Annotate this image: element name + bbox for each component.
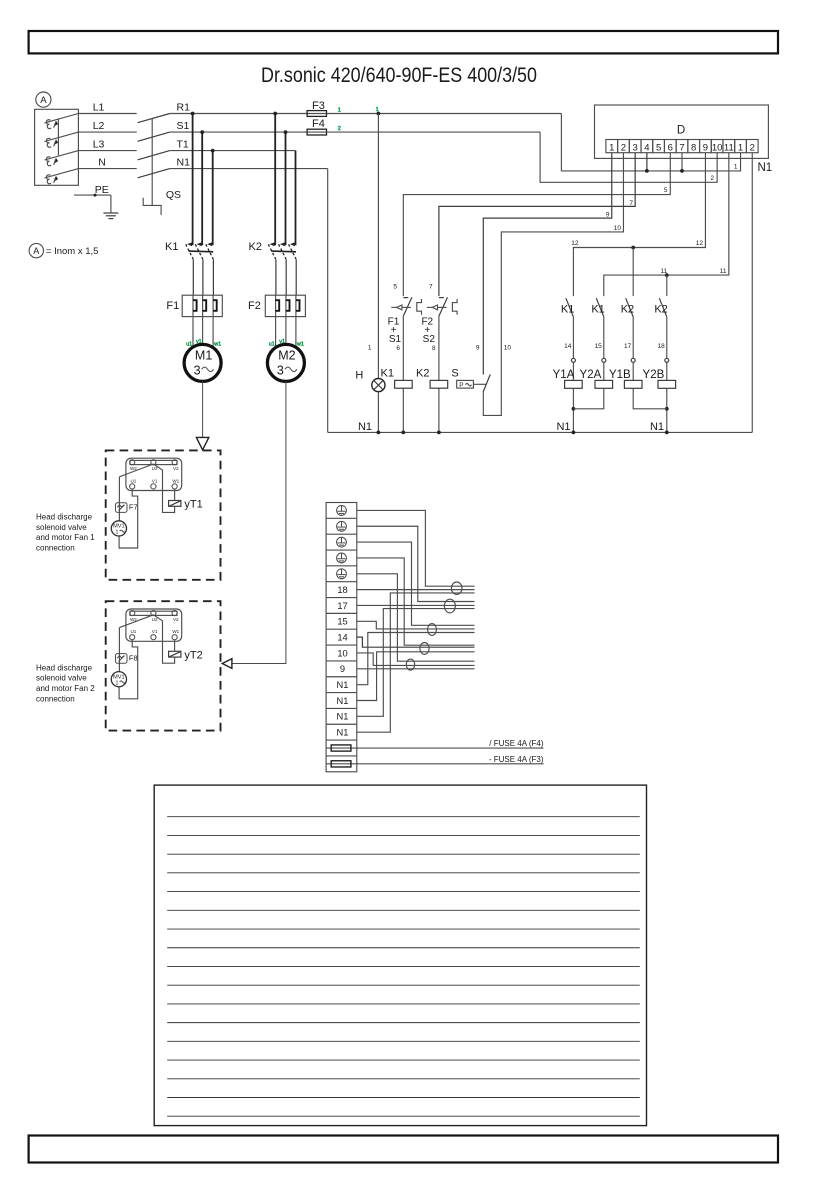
notes rule line 3 (167, 853, 640, 855)
controller D terminal cells (606, 140, 618, 153)
wire K1 coil to N1 rail (402, 388, 404, 432)
svg-text:and motor Fan 1: and motor Fan 1 (36, 533, 95, 542)
contactor K2 pole 1 contact tip (270, 242, 275, 246)
svg-text:15: 15 (337, 617, 347, 627)
svg-text:9: 9 (703, 142, 708, 153)
wire N1 left rail (327, 169, 329, 433)
terminal strip cell 11 (9) (326, 660, 357, 662)
svg-text:U1: U1 (130, 629, 136, 634)
motor M2 feed wires (275, 317, 277, 347)
svg-text:connection: connection (36, 694, 75, 703)
footer title block bar (29, 1136, 778, 1163)
contactor K2 pole 2 blade (dashed) (279, 244, 287, 259)
svg-text:V2: V2 (173, 617, 179, 622)
svg-text:D: D (677, 125, 685, 137)
solenoid yT1 (174, 489, 176, 501)
svg-text:6: 6 (668, 142, 673, 153)
wire 10 (357, 653, 475, 665)
terminal strip cell 9 (14) (326, 628, 357, 630)
terminal strip cell 16 (f) (326, 739, 357, 741)
ammeter symbol A (top) (36, 92, 51, 107)
thermal protector F8 (116, 654, 128, 664)
svg-text:F2: F2 (248, 300, 261, 312)
svg-text:N1: N1 (358, 421, 372, 433)
svg-text:Y2B: Y2B (643, 369, 665, 381)
svg-text:Y1B: Y1B (609, 369, 631, 381)
svg-text:Y1A: Y1A (553, 369, 575, 381)
wire Y2A to Y1A junction (573, 388, 603, 409)
mechanical link of CTs (57, 120, 59, 156)
svg-text:14: 14 (564, 343, 572, 350)
disconnect switch QS (138, 114, 170, 123)
overload F1 element pole 2 (202, 295, 204, 316)
lamp H (372, 379, 385, 392)
terminal strip cell 14 (N1) (326, 707, 357, 709)
svg-text:2: 2 (750, 142, 755, 153)
svg-text:2: 2 (710, 175, 714, 182)
wire 8 to coil K2 (438, 316, 440, 381)
wire earth 3 (357, 542, 475, 625)
wire lamp to N1 rail (377, 392, 379, 433)
svg-text:10: 10 (504, 345, 512, 352)
contactor K2 pole 3 contact tip (290, 242, 295, 246)
cable marker B (444, 599, 455, 613)
svg-text:Head discharge: Head discharge (36, 513, 93, 522)
wire 6 to coil K1 (402, 316, 404, 381)
fuse F3 (307, 111, 326, 117)
notes rule line 10 (167, 984, 640, 986)
terminal strip cell 17 (f) (326, 755, 357, 757)
CT/connection symbols inside metering box (44, 114, 78, 123)
wire 15 (603, 317, 605, 359)
wire 18 (666, 317, 668, 359)
wire L2 (78, 131, 136, 133)
terminal strip cell 10 (10) (326, 644, 357, 646)
wire N1 d (357, 593, 475, 732)
controller D box (595, 105, 769, 158)
board link bar (130, 611, 177, 615)
contactor K2 pole 2 wire (285, 132, 287, 245)
terminal strip cell 15 (N1) (326, 723, 357, 725)
notes rule line 11 (167, 1003, 640, 1005)
svg-text:= Inom x 1,5: = Inom x 1,5 (46, 246, 99, 257)
svg-text:- FUSE 4A (F3): - FUSE 4A (F3) (489, 755, 544, 764)
wire N1 c (357, 609, 475, 717)
svg-text:K1: K1 (381, 368, 394, 380)
wire 1 (24V supply to D terminals 4,7,12) (561, 114, 740, 171)
motor M1 feed wires (192, 317, 194, 347)
wire 2 after F4 (327, 131, 541, 133)
svg-text:S: S (451, 368, 458, 380)
svg-text:1: 1 (368, 345, 372, 352)
terminal strip cell 8 (15) (326, 612, 357, 614)
note: A = Inom x 1,5 (29, 243, 43, 257)
board link bar (130, 460, 177, 464)
contactor K2 pole 2 contact tip (280, 242, 285, 246)
wire 9 (D terminal 1 to switch S) (483, 153, 611, 375)
terminal strip block (326, 503, 357, 772)
wire earth 4 (357, 558, 475, 645)
contactor K2 pole 1 wire (274, 114, 276, 246)
solenoid yT2 (174, 640, 176, 652)
board terminal U2 (151, 460, 156, 465)
wire 12 (D terminal 9 to K1 contacts) (573, 153, 705, 296)
wire M1 to fan box 1 (202, 381, 204, 437)
contactor K1 pole 3 blade (dashed) (206, 244, 214, 259)
wire S1 bus (170, 131, 307, 133)
cable marker E (406, 659, 414, 670)
svg-text:L1: L1 (93, 102, 105, 114)
svg-text:9: 9 (606, 211, 610, 218)
notes rule line 17 (167, 1115, 640, 1117)
wire U2 to motor protector (119, 464, 153, 477)
notes rule line 13 (167, 1040, 640, 1042)
terminal point Y2B (665, 358, 669, 362)
contactor K2 pole 1 blade (dashed) (268, 244, 276, 259)
terminal board (fan 1) (126, 458, 182, 490)
svg-text:12: 12 (571, 240, 579, 247)
svg-text:K1: K1 (591, 304, 604, 316)
svg-text:V1: V1 (152, 478, 158, 483)
wire 5 (D terminal 6 to F1/S1 contact) (403, 153, 670, 296)
svg-text:9: 9 (340, 664, 345, 674)
svg-text:M1: M1 (195, 349, 212, 363)
wire earth 5 (357, 574, 475, 661)
svg-text:Head discharge: Head discharge (36, 663, 93, 672)
coil K1 (395, 380, 413, 388)
wire 17 (632, 317, 634, 359)
svg-text:F3: F3 (312, 100, 325, 112)
wire 7 (D terminal 3 to F2/S2 contact) (439, 153, 635, 296)
wire stub terminal 7 (681, 153, 683, 171)
motor M2 circle (267, 344, 304, 381)
QS handle (143, 198, 161, 215)
wire 10 (D terminal 2 to switch S) (483, 153, 623, 416)
wire 2 (to D terminal 10) (540, 132, 717, 182)
wire N (78, 168, 136, 170)
wire R1 bus (170, 113, 307, 115)
contactor K1 pole 2 contact tip (197, 242, 202, 246)
wire + FUSE 4A (F4) (357, 747, 544, 749)
overload relay F1 box (182, 295, 222, 316)
svg-text:5: 5 (393, 284, 397, 291)
svg-text:14: 14 (337, 633, 347, 643)
terminal board (fan 2 ) (126, 609, 182, 641)
arrow into fan box 1 (196, 437, 208, 450)
wire 17 (357, 604, 475, 606)
terminal point Y1A (571, 358, 575, 362)
svg-text:N1: N1 (177, 157, 191, 169)
svg-text:Dr.sonic 420/640-90F-ES 400/3/: Dr.sonic 420/640-90F-ES 400/3/50 (261, 63, 537, 87)
overload F1 element pole 3 (212, 295, 214, 316)
wire 1 to lamp H (377, 114, 379, 379)
contactor K1 pole 1 blade (dashed) (186, 244, 194, 259)
svg-text:N: N (98, 157, 106, 169)
header title block bar (29, 31, 778, 53)
terminal strip cell 5 (e) (326, 565, 357, 567)
svg-text:S2: S2 (423, 334, 436, 345)
svg-text:yT1: yT1 (184, 499, 202, 511)
svg-text:S1: S1 (177, 120, 190, 132)
wire 11 (D terminal 11 to K2 contacts) (604, 153, 729, 296)
svg-text:Y2A: Y2A (580, 369, 602, 381)
svg-text:N1: N1 (556, 421, 570, 433)
contactor K2 pole 3 blade (dashed) (289, 244, 297, 259)
svg-text:7: 7 (679, 142, 684, 153)
svg-text:11: 11 (724, 142, 734, 153)
notes table box (154, 785, 646, 1126)
wire 11 branch to Y2B contact (666, 275, 668, 296)
overload F1 element pole 1 (192, 295, 194, 316)
terminal point Y1B (631, 358, 635, 362)
wire T1 bus (170, 150, 296, 152)
svg-text:18: 18 (658, 343, 666, 350)
svg-text:V1: V1 (152, 629, 158, 634)
svg-text:A: A (33, 246, 39, 256)
svg-text:connection: connection (36, 544, 75, 553)
motor M1 circle (184, 344, 221, 381)
notes rule line 12 (167, 1022, 640, 1024)
svg-text:17: 17 (624, 343, 632, 350)
wire fan motor to U1 (119, 489, 138, 548)
notes rule line 1 (167, 816, 640, 818)
wire N1 a (357, 633, 475, 685)
notes rule line 6 (167, 909, 640, 911)
board terminal V2 (172, 460, 177, 465)
notes rule line 7 (167, 928, 640, 930)
svg-text:K1: K1 (561, 304, 574, 316)
svg-text:/ FUSE 4A (F4): / FUSE 4A (F4) (489, 739, 544, 748)
svg-text:K1: K1 (165, 241, 178, 253)
fan motor MV1 (111, 672, 126, 687)
contactor K1 pole 1 contact tip (187, 242, 192, 246)
svg-text:8: 8 (432, 345, 436, 352)
overload F2 element pole 3 (295, 295, 297, 316)
wire earth 2 (357, 526, 475, 601)
terminal strip cell 7 (17) (326, 597, 357, 599)
wire 14 (357, 637, 475, 647)
wire M2 to fan box 2 (232, 381, 286, 663)
svg-text:K2: K2 (621, 304, 634, 316)
contactor K1 mechanical link (189, 250, 214, 253)
svg-text:7: 7 (629, 200, 633, 207)
svg-text:and motor Fan 2: and motor Fan 2 (36, 684, 95, 693)
notes rule line 14 (167, 1059, 640, 1061)
svg-text:18: 18 (337, 585, 347, 595)
svg-text:10: 10 (614, 225, 622, 232)
svg-text:W1: W1 (172, 478, 179, 483)
contact K2 (for Y2B) (659, 298, 667, 317)
svg-text:U1: U1 (130, 478, 136, 483)
terminal strip cell 13 (N1) (326, 692, 357, 694)
svg-text:L2: L2 (93, 120, 105, 132)
svg-text:N1: N1 (650, 421, 664, 433)
ground (PE earth symbol) (103, 212, 118, 214)
svg-text:15: 15 (595, 343, 603, 350)
cable marker C (428, 624, 437, 636)
svg-text:N1: N1 (337, 696, 349, 706)
wire stub terminal 4 (646, 153, 648, 171)
wire U2 to motor protector (119, 615, 153, 628)
terminal strip cell 1 (e) (337, 506, 347, 516)
svg-text:A: A (40, 95, 47, 106)
terminal strip cell 3 (e) (326, 533, 357, 535)
contact F2+S2 (overload NC) (439, 297, 444, 299)
terminal strip cell 4 (e) (326, 549, 357, 551)
svg-text:1: 1 (738, 142, 743, 153)
board terminal W2 (130, 460, 135, 465)
svg-text:9: 9 (476, 345, 480, 352)
wire 15 (357, 621, 475, 629)
wire L1 (supply to QS) (78, 113, 136, 115)
svg-text:H: H (355, 369, 363, 381)
wire 9 (357, 668, 475, 670)
svg-text:1: 1 (376, 107, 379, 113)
fan motor MV1 (111, 521, 126, 536)
notes rule line 15 (167, 1078, 640, 1080)
svg-text:4: 4 (644, 142, 649, 153)
overload F2 element pole 2 (285, 295, 287, 316)
svg-text:1: 1 (338, 107, 341, 113)
contact F1+S1 (overload NC) (403, 297, 408, 299)
cable marker A (451, 582, 462, 594)
contactor K2 mechanical link (271, 250, 296, 253)
board terminal U2 (151, 611, 156, 616)
svg-text:F4: F4 (312, 118, 325, 130)
notes rule line 2 (167, 834, 640, 836)
terminal strip cell 12 (N1) (326, 676, 357, 678)
wire 12 branch to Y1B contact (632, 248, 634, 297)
notes rule line 5 (167, 891, 640, 893)
wire 1 after F3 (327, 113, 562, 115)
svg-text:K2: K2 (249, 241, 262, 253)
svg-text:N1: N1 (337, 728, 349, 738)
wire PE (74, 194, 111, 196)
dashed box fan 2 connection (106, 601, 221, 730)
svg-text:R1: R1 (177, 102, 191, 114)
svg-text:17: 17 (337, 601, 347, 611)
terminal strip cell 6 (18) (326, 581, 357, 583)
wire fan motor to U1 (119, 640, 138, 699)
svg-text:P: P (459, 382, 463, 389)
svg-text:1: 1 (734, 164, 738, 171)
wire 14 (572, 317, 574, 359)
svg-text:11: 11 (720, 268, 727, 275)
arrow into fan box 2 (222, 659, 232, 669)
svg-text:K2: K2 (416, 368, 429, 380)
svg-text:F8: F8 (129, 654, 138, 663)
notes rule line 4 (167, 872, 640, 874)
metering box (35, 109, 79, 185)
svg-text:N1: N1 (758, 162, 773, 174)
svg-text:11: 11 (661, 268, 668, 275)
wire N1 bus (170, 168, 328, 170)
svg-text:u1: u1 (269, 342, 275, 348)
svg-text:N1: N1 (337, 680, 349, 690)
switch S blade (483, 374, 490, 392)
svg-text:10: 10 (337, 648, 347, 658)
cable marker D (420, 643, 429, 655)
wire N1 b (357, 652, 475, 701)
overload F2 element pole 1 (275, 295, 277, 316)
svg-text:QS: QS (166, 189, 181, 201)
wire solenoid yT2 to U2 (153, 615, 174, 663)
svg-text:F1: F1 (166, 300, 179, 312)
svg-text:5: 5 (664, 187, 668, 194)
svg-text:3: 3 (194, 363, 201, 377)
svg-text:3: 3 (633, 142, 638, 153)
QS mechanical link (151, 119, 153, 206)
wire N1 from D terminal 2(last) down to N1 rail (751, 153, 753, 433)
contactor K1 pole 1 wire (192, 114, 194, 246)
dashed box fan 1 connection (106, 450, 221, 579)
thermal protector F7 (116, 503, 128, 513)
svg-text:L3: L3 (93, 139, 105, 151)
svg-text:3: 3 (277, 363, 284, 377)
svg-text:F7: F7 (129, 503, 138, 512)
svg-text:12: 12 (696, 240, 704, 247)
terminal strip cell 2 (e) (326, 517, 357, 519)
wire Y1B to Y2B junction (633, 388, 667, 409)
board terminal W2 (130, 611, 135, 616)
wire N1 bottom rail (328, 431, 753, 433)
svg-text:1: 1 (609, 142, 614, 153)
svg-text:10: 10 (712, 142, 723, 153)
wire Y1A to N1 rail (572, 388, 574, 432)
svg-text:5: 5 (656, 142, 661, 153)
contactor K1 pole 2 blade (dashed) (195, 244, 203, 259)
svg-text:W1: W1 (172, 629, 179, 634)
svg-text:7: 7 (429, 284, 433, 291)
wire K2 coil to N1 rail (438, 388, 440, 432)
overload relay F2 box (265, 295, 305, 316)
svg-text:1: 1 (115, 530, 118, 536)
svg-text:6: 6 (396, 345, 400, 352)
svg-text:V2: V2 (173, 466, 179, 471)
svg-text:S1: S1 (389, 334, 402, 345)
svg-text:T1: T1 (177, 139, 189, 151)
notes rule line 9 (167, 965, 640, 967)
contactor K1 pole 3 contact tip (207, 242, 212, 246)
wire earth 1 (357, 510, 475, 586)
contact K2 (for Y1B) (626, 298, 634, 317)
svg-text:N1: N1 (337, 712, 349, 722)
svg-text:1: 1 (115, 680, 118, 686)
contact K1 (for Y1A) (566, 298, 574, 317)
contactor K1 pole 3 wire (212, 151, 214, 246)
svg-text:K2: K2 (654, 304, 667, 316)
contact K1 (for Y2A) (596, 298, 604, 317)
wire 18 (357, 589, 475, 591)
contactor K2 pole 3 wire (295, 151, 297, 246)
fuse F4 (307, 129, 326, 135)
wire Y2B to N1 rail (666, 388, 668, 432)
svg-text:2: 2 (621, 142, 626, 153)
svg-text:PE: PE (95, 184, 109, 196)
board terminal V2 (172, 611, 177, 616)
contactor K1 pole 2 wire (201, 132, 203, 245)
notes rule line 16 (167, 1097, 640, 1099)
svg-text:8: 8 (691, 142, 696, 153)
wire - FUSE 4A (F3) (357, 763, 544, 765)
notes rule line 8 (167, 947, 640, 949)
svg-text:yT2: yT2 (184, 649, 202, 661)
wire L3 (78, 150, 136, 152)
svg-text:solenoid valve: solenoid valve (36, 674, 87, 683)
svg-text:2: 2 (338, 126, 341, 132)
svg-text:solenoid valve: solenoid valve (36, 523, 87, 532)
coil K2 (430, 380, 448, 388)
